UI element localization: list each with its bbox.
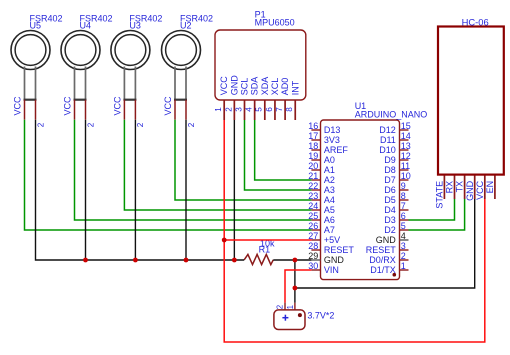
- svg-text:XDA: XDA: [260, 77, 270, 96]
- sensor U2 FSR402: [162, 13, 214, 127]
- svg-text:D2: D2: [384, 225, 396, 235]
- svg-text:TX: TX: [455, 181, 465, 193]
- svg-text:D3: D3: [384, 215, 396, 225]
- svg-text:SCL: SCL: [240, 78, 250, 96]
- svg-text:D1/TX: D1/TX: [370, 265, 396, 275]
- svg-text:VCC: VCC: [475, 180, 485, 200]
- svg-text:D12: D12: [379, 125, 396, 135]
- module P1 MPU6050: [214, 10, 306, 120]
- svg-text:VCC: VCC: [219, 76, 229, 96]
- svg-text:D7: D7: [384, 175, 396, 185]
- junction U4-GND: [83, 258, 88, 263]
- svg-text:1: 1: [286, 305, 295, 309]
- svg-text:D9: D9: [384, 155, 396, 165]
- svg-text:GND: GND: [324, 255, 345, 265]
- svg-text:U4: U4: [80, 20, 92, 30]
- svg-text:16: 16: [308, 121, 318, 131]
- svg-text:20: 20: [308, 161, 318, 171]
- wire signal U5 to A7: [25, 120, 312, 230]
- svg-text:A0: A0: [324, 155, 335, 165]
- svg-text:D5: D5: [384, 195, 396, 205]
- svg-text:VIN: VIN: [324, 265, 339, 275]
- svg-text:RX: RX: [445, 181, 455, 194]
- svg-text:AD0: AD0: [280, 78, 290, 96]
- wire D2 to HC-06 TX: [409, 199, 465, 230]
- module HC-06: [435, 16, 504, 208]
- svg-text:12: 12: [401, 151, 411, 161]
- wire signal U3 to A5: [124, 120, 311, 210]
- svg-text:8: 8: [401, 191, 406, 201]
- svg-text:2: 2: [136, 122, 145, 127]
- svg-text:3.7V*2: 3.7V*2: [307, 311, 334, 321]
- sensor U3 FSR402: [111, 13, 163, 127]
- svg-text:ARDUINO_NANO: ARDUINO_NANO: [355, 109, 428, 119]
- IC U1 ARDUINO_NANO: [308, 101, 427, 279]
- junction GND-HC06: [293, 286, 298, 291]
- junction U3-GND: [133, 258, 138, 263]
- svg-text:A2: A2: [324, 175, 335, 185]
- svg-text:VCC: VCC: [113, 96, 123, 116]
- svg-text:STATE: STATE: [435, 181, 445, 209]
- svg-text:6: 6: [401, 211, 406, 221]
- svg-text:+5V: +5V: [324, 235, 340, 245]
- svg-text:4: 4: [401, 231, 406, 241]
- battery BT1 3.7V*2: [274, 303, 335, 330]
- svg-text:13: 13: [401, 141, 411, 151]
- svg-text:RESET: RESET: [366, 245, 397, 255]
- svg-text:GND: GND: [465, 180, 475, 201]
- svg-text:VCC: VCC: [163, 96, 173, 116]
- svg-text:U2: U2: [180, 20, 192, 30]
- svg-text:D0/RX: D0/RX: [369, 255, 396, 265]
- wire battery plus to VIN pin30: [285, 270, 311, 303]
- wire +5V branch to Arduino pin27: [224, 239, 311, 241]
- svg-text:6: 6: [265, 107, 274, 112]
- svg-text:D4: D4: [384, 205, 396, 215]
- svg-text:U5: U5: [30, 20, 42, 30]
- wire HC-06 GND to battery: [295, 199, 475, 288]
- svg-text:5: 5: [255, 107, 264, 112]
- svg-text:3V3: 3V3: [324, 135, 340, 145]
- junction U2-GND: [184, 258, 189, 263]
- svg-text:3: 3: [401, 241, 406, 251]
- svg-text:17: 17: [308, 131, 318, 141]
- svg-text:2: 2: [187, 122, 196, 127]
- wire VCC net MPU pin1 to HC-06 VCC: [224, 120, 485, 342]
- svg-text:R1: R1: [259, 245, 271, 255]
- wire battery minus riser: [294, 260, 296, 303]
- svg-text:8: 8: [285, 107, 294, 112]
- svg-text:1: 1: [214, 107, 223, 112]
- svg-text:VCC: VCC: [13, 96, 23, 116]
- svg-text:A3: A3: [324, 185, 335, 195]
- svg-text:D8: D8: [384, 165, 396, 175]
- svg-text:9: 9: [401, 181, 406, 191]
- svg-text:A5: A5: [324, 205, 335, 215]
- wire D3 to HC-06 RX: [409, 199, 455, 220]
- svg-text:10: 10: [401, 171, 411, 181]
- svg-text:D11: D11: [380, 135, 396, 145]
- svg-text:19: 19: [308, 151, 318, 161]
- svg-text:1: 1: [401, 261, 406, 271]
- svg-text:2: 2: [224, 107, 233, 112]
- wire SCL MPU pin3 to A3: [245, 120, 312, 190]
- wire GND drop U4: [85, 120, 87, 260]
- svg-text:11: 11: [401, 161, 410, 171]
- svg-text:14: 14: [401, 131, 411, 141]
- junction battery-GND: [293, 258, 298, 263]
- svg-text:15: 15: [401, 121, 411, 131]
- svg-text:VCC: VCC: [63, 96, 73, 116]
- wire signal U2 to A4: [175, 120, 311, 200]
- svg-text:5: 5: [401, 221, 406, 231]
- svg-text:SDA: SDA: [250, 77, 260, 96]
- svg-text:AREF: AREF: [324, 145, 349, 155]
- svg-text:A4: A4: [324, 195, 335, 205]
- wire signal U4 to A6: [75, 120, 312, 220]
- wire GND drop U3: [134, 120, 136, 260]
- wire R1 right to Arduino GND pin29: [273, 259, 311, 261]
- svg-text:2: 2: [401, 251, 406, 261]
- svg-text:3: 3: [234, 107, 243, 112]
- svg-text:A7: A7: [324, 225, 335, 235]
- wire GND rail from U5 through R1 area: [36, 120, 245, 260]
- svg-text:D6: D6: [384, 185, 396, 195]
- svg-text:2: 2: [86, 122, 95, 127]
- svg-text:A1: A1: [324, 165, 335, 175]
- svg-text:7: 7: [275, 107, 284, 112]
- svg-text:EN: EN: [485, 181, 495, 194]
- svg-text:4: 4: [245, 107, 254, 112]
- svg-text:U3: U3: [129, 20, 141, 30]
- sensor U5 FSR402: [11, 13, 63, 127]
- junction MPU-GND: [232, 258, 237, 263]
- svg-text:2: 2: [275, 305, 284, 309]
- wire GND drop U2: [185, 120, 187, 260]
- wire GND drop MPU pin2: [233, 120, 235, 260]
- svg-text:18: 18: [308, 141, 318, 151]
- wire SDA MPU pin4 to A2: [255, 120, 312, 180]
- resistor R1 10k: [244, 238, 275, 264]
- svg-text:MPU6050: MPU6050: [255, 18, 295, 28]
- svg-text:RESET: RESET: [324, 245, 355, 255]
- svg-text:GND: GND: [376, 235, 397, 245]
- svg-text:7: 7: [401, 201, 406, 211]
- svg-text:2: 2: [36, 122, 45, 127]
- svg-text:GND: GND: [229, 75, 239, 96]
- svg-text:28: 28: [308, 241, 318, 251]
- sensor U4 FSR402: [61, 13, 113, 127]
- svg-text:D13: D13: [324, 125, 341, 135]
- svg-text:D10: D10: [379, 145, 396, 155]
- svg-text:INT: INT: [290, 80, 300, 95]
- svg-text:XCL: XCL: [270, 78, 280, 96]
- junction +5V: [222, 238, 227, 243]
- svg-text:HC-06: HC-06: [462, 16, 489, 27]
- svg-text:A6: A6: [324, 215, 335, 225]
